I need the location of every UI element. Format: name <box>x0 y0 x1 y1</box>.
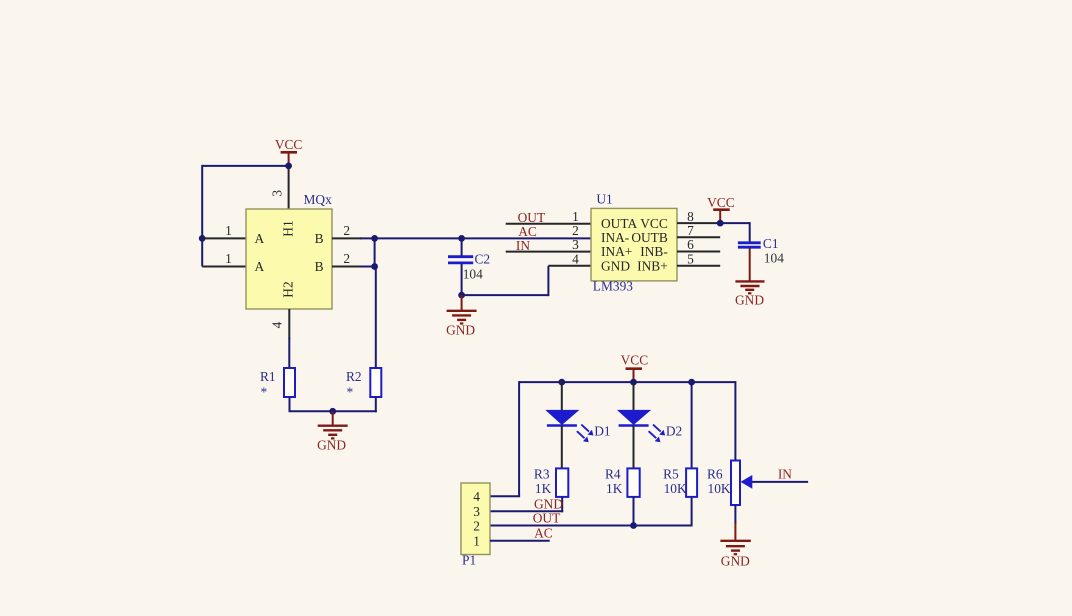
wire R2 column down <box>375 267 377 369</box>
svg-text:VCC: VCC <box>640 216 668 231</box>
pin 3 (H1 top) <box>269 166 288 209</box>
svg-text:A: A <box>255 259 265 274</box>
svg-text:GND: GND <box>446 323 475 338</box>
svg-text:VCC: VCC <box>707 195 735 210</box>
wire VCC horizontal to left rail <box>202 165 288 167</box>
junction bus R5 <box>688 379 695 386</box>
svg-text:8: 8 <box>687 209 694 224</box>
wire left rail vertical <box>201 165 203 267</box>
power VCC (bottom) <box>621 353 649 383</box>
svg-text:3: 3 <box>572 237 579 252</box>
wire top bus <box>519 381 735 383</box>
pin 6 stub <box>677 237 720 252</box>
resistor R5 <box>663 467 697 497</box>
wire R4 bottom <box>633 497 635 526</box>
pin 2 (B upper) <box>332 223 362 238</box>
resistor R3 <box>534 467 568 497</box>
svg-text:3: 3 <box>473 504 480 519</box>
junction B row at C2 <box>458 235 465 242</box>
svg-text:A: A <box>255 231 265 246</box>
svg-text:1: 1 <box>225 251 232 266</box>
svg-text:R5: R5 <box>663 467 679 482</box>
svg-text:R4: R4 <box>605 467 621 482</box>
wire R5 top <box>691 382 693 468</box>
svg-text:GND: GND <box>534 496 563 511</box>
wire OUT to U1 pin1 <box>506 223 591 225</box>
connector P1 body <box>461 483 490 555</box>
svg-text:2: 2 <box>473 519 480 534</box>
wire R6 bottom <box>734 505 736 524</box>
svg-text:6: 6 <box>687 237 694 252</box>
svg-text:104: 104 <box>764 251 784 266</box>
svg-text:P1: P1 <box>462 553 476 568</box>
pin 4 (H2 bottom) <box>269 309 289 339</box>
svg-text:R1: R1 <box>260 369 276 384</box>
svg-text:7: 7 <box>687 223 694 238</box>
wire R2 bottom <box>375 397 377 412</box>
junction bus D1 <box>558 379 565 386</box>
svg-text:AC: AC <box>518 224 537 239</box>
pin 5 stub <box>677 251 720 266</box>
wire down to C1 <box>749 222 751 241</box>
svg-text:1K: 1K <box>606 481 623 496</box>
svg-text:VCC: VCC <box>275 137 303 152</box>
svg-text:R6: R6 <box>707 467 723 482</box>
svg-text:GND: GND <box>601 258 630 273</box>
svg-text:AC: AC <box>534 525 553 540</box>
junction C2 bottom <box>458 292 465 299</box>
svg-text:4: 4 <box>269 321 284 328</box>
wire MQx pin4 to R1 <box>288 338 290 368</box>
junction U1 pin8 <box>717 220 724 227</box>
power VCC (at U1 pin8) <box>707 195 735 223</box>
wire C2 to U1 pin4 horizontal <box>462 294 549 296</box>
svg-text:OUTA: OUTA <box>601 216 637 231</box>
svg-text:1K: 1K <box>535 481 552 496</box>
wire bottom link R1-R2 <box>289 410 377 412</box>
svg-text:GND: GND <box>721 554 750 569</box>
svg-text:INA+: INA+ <box>601 244 632 259</box>
svg-text:MQx: MQx <box>304 192 333 207</box>
svg-text:IN: IN <box>778 467 792 482</box>
junction B lower at R2 column <box>371 263 378 270</box>
svg-text:5: 5 <box>687 251 694 266</box>
svg-text:OUT: OUT <box>518 210 546 225</box>
svg-text:R2: R2 <box>346 369 362 384</box>
svg-text:GND: GND <box>735 293 764 308</box>
junction at pin A1 <box>199 235 206 242</box>
svg-text:D1: D1 <box>594 424 610 439</box>
svg-text:104: 104 <box>463 267 483 282</box>
svg-text:3: 3 <box>269 190 284 197</box>
junction B row at R2 column <box>371 235 378 242</box>
pin 8 stub <box>677 209 720 224</box>
junction bus VCC/D2 <box>630 379 637 386</box>
pin 7 stub <box>677 223 720 238</box>
wire bus left drop to P1 pin4 <box>518 381 520 496</box>
op-amp U1 body <box>591 208 677 281</box>
wire B lower to R2 column <box>360 266 375 268</box>
wire R3 bottom <box>561 497 563 512</box>
ground GND (below R6) <box>720 523 750 569</box>
svg-text:1: 1 <box>572 209 579 224</box>
svg-text:*: * <box>347 385 354 400</box>
svg-text:B: B <box>315 259 324 274</box>
svg-text:H2: H2 <box>281 281 296 297</box>
sensor MQx body <box>246 209 332 309</box>
ground GND (below C2) <box>446 295 477 337</box>
svg-text:4: 4 <box>473 489 480 504</box>
junction at VCC drop <box>285 163 292 170</box>
capacitor C2 <box>448 238 490 281</box>
wire C1 bottom to ground <box>749 248 751 281</box>
svg-text:LM393: LM393 <box>593 279 633 294</box>
svg-text:H1: H1 <box>281 220 296 236</box>
resistor R1 <box>260 368 295 400</box>
wire C2 bottom <box>461 264 463 295</box>
svg-text:U1: U1 <box>596 192 612 207</box>
svg-text:1: 1 <box>225 223 232 238</box>
wire B row to U1 pin2 <box>360 237 591 239</box>
junction at GND tap <box>329 408 336 415</box>
svg-text:*: * <box>261 385 268 400</box>
LED D1 <box>547 382 611 468</box>
LED D2 <box>618 382 682 468</box>
junction OUT row at R4 <box>630 522 637 529</box>
svg-text:1: 1 <box>473 533 480 548</box>
wire R1 bottom <box>289 397 291 411</box>
pin 1 (A lower) <box>202 251 246 267</box>
ground GND (below R1/R2) <box>317 411 348 452</box>
wire bus to R6 top <box>734 381 736 460</box>
wiper arrow of R6 <box>741 475 809 489</box>
svg-text:C2: C2 <box>475 252 491 267</box>
svg-text:4: 4 <box>572 251 579 266</box>
svg-text:OUT: OUT <box>533 510 561 525</box>
svg-text:GND: GND <box>317 438 346 453</box>
svg-text:VCC: VCC <box>621 353 649 368</box>
svg-text:INB+: INB+ <box>637 258 668 273</box>
ground GND (below C1) <box>735 281 765 307</box>
wire P1 pin2 OUT row <box>490 510 692 525</box>
svg-text:B: B <box>315 231 324 246</box>
wire B1-B2 link vertical <box>374 238 376 266</box>
wire P1 pin1 AC stub <box>490 525 553 540</box>
pin 2 (B lower) <box>332 251 362 267</box>
svg-text:R3: R3 <box>534 467 550 482</box>
svg-text:2: 2 <box>343 251 350 266</box>
resistor R2 <box>346 368 381 400</box>
svg-text:2: 2 <box>343 223 350 238</box>
wire IN to U1 pin3 <box>506 251 591 253</box>
pin 1 (A upper) <box>202 223 246 238</box>
resistor R4 <box>605 467 640 497</box>
wire up to U1 pin4 <box>547 266 549 296</box>
pin 4 stub U1 <box>548 265 591 267</box>
svg-text:OUTB: OUTB <box>631 230 668 245</box>
wire P1 pin4 stub <box>490 495 520 497</box>
svg-text:INB-: INB- <box>640 244 668 259</box>
wire pin8 to C1 <box>720 222 750 224</box>
capacitor C1 <box>738 236 784 266</box>
svg-text:C1: C1 <box>763 236 779 251</box>
svg-text:2: 2 <box>572 223 579 238</box>
wire OUT row up to R5 <box>691 497 693 527</box>
svg-text:D2: D2 <box>666 424 682 439</box>
svg-text:INA-: INA- <box>601 230 629 245</box>
svg-text:10K: 10K <box>708 481 731 496</box>
potentiometer R6 <box>707 461 740 506</box>
power VCC (top-left) <box>275 137 303 166</box>
svg-text:10K: 10K <box>664 481 687 496</box>
wire P1 pin3 to R3 (GND net) <box>490 496 563 511</box>
